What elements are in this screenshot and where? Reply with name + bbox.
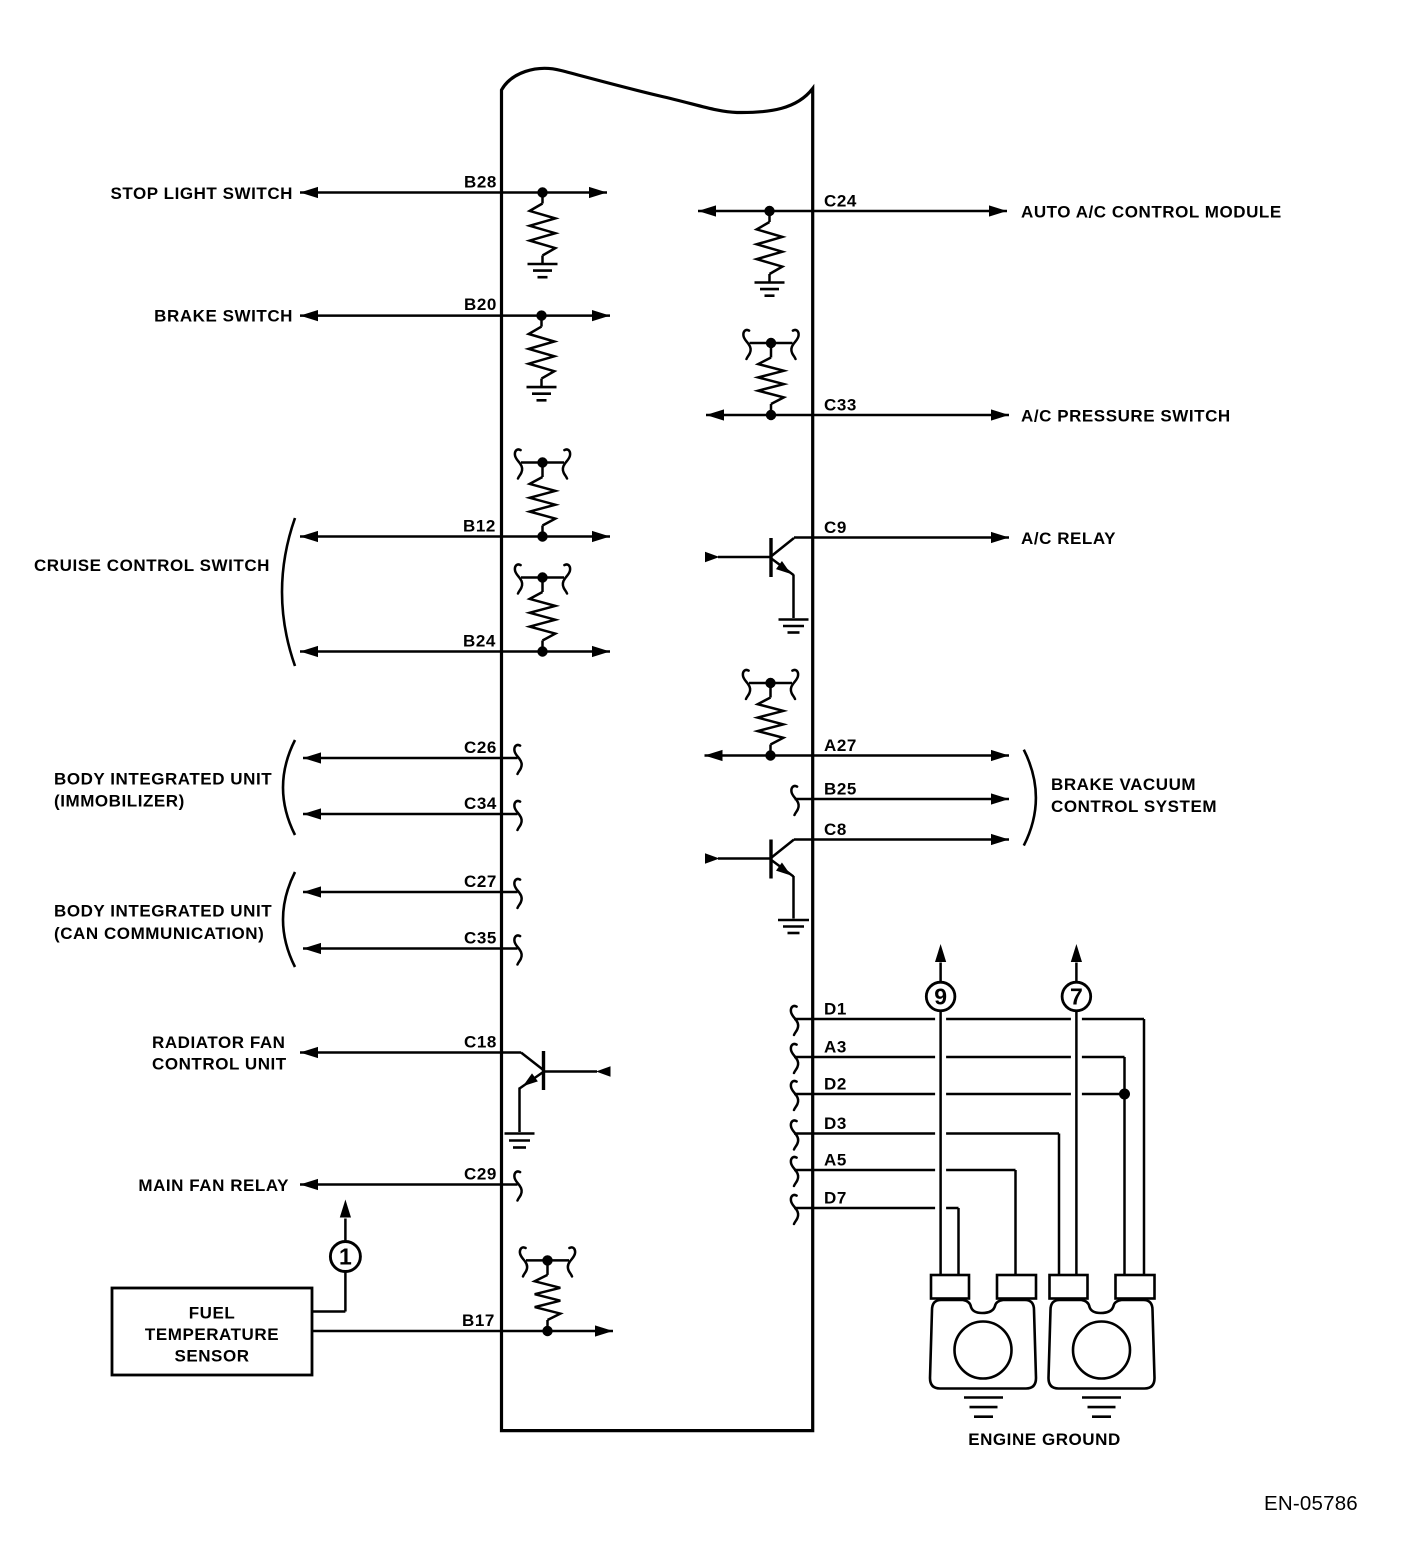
resistor at B20 to ground: [527, 310, 557, 400]
wire A3 to engine ground: [794, 1057, 1125, 1276]
wire circled 7 to engine ground: [1075, 1012, 1078, 1276]
svg-text:C27: C27: [464, 872, 497, 891]
svg-text:CONTROL SYSTEM: CONTROL SYSTEM: [1051, 797, 1217, 816]
svg-text:SENSOR: SENSOR: [174, 1347, 249, 1366]
pin label D3: [824, 1114, 847, 1133]
svg-text:C26: C26: [464, 738, 497, 757]
svg-text:B25: B25: [824, 780, 857, 799]
wire D1 to engine ground: [794, 1019, 1144, 1276]
svg-text:CRUISE CONTROL SWITCH: CRUISE CONTROL SWITCH: [34, 556, 270, 575]
label CRUISE CONTROL SWITCH: [34, 556, 270, 575]
brace brake vacuum control system: [1024, 750, 1036, 846]
svg-text:7: 7: [1070, 984, 1083, 1010]
pin label C24: [824, 192, 857, 211]
transistor Q3 base lead with arrow: [544, 1066, 611, 1077]
svg-text:9: 9: [934, 984, 947, 1010]
label BODY INTEGRATED UNIT (IMMOBILIZER): [54, 770, 272, 811]
svg-text:MAIN FAN RELAY: MAIN FAN RELAY: [138, 1176, 289, 1195]
pin label C8: [824, 820, 847, 839]
svg-text:B17: B17: [462, 1311, 495, 1330]
circled number 9: [926, 982, 955, 1011]
wire B25 to brake vacuum control system: [795, 793, 1010, 804]
transistor Q3 base bar: [542, 1051, 545, 1090]
svg-text:FUEL: FUEL: [189, 1304, 236, 1323]
wire from sensor to circled 1: [312, 1272, 345, 1312]
svg-text:C24: C24: [824, 192, 857, 211]
svg-text:D2: D2: [824, 1075, 847, 1094]
svg-text:BRAKE SWITCH: BRAKE SWITCH: [154, 307, 293, 326]
arrow above circled 1: [340, 1200, 351, 1242]
label A/C RELAY: [1021, 529, 1116, 548]
wire D7 to engine ground: [794, 1208, 959, 1276]
label STOP LIGHT SWITCH: [110, 184, 293, 203]
svg-text:RADIATOR FAN: RADIATOR FAN: [152, 1033, 285, 1052]
transistor Q2 base bar: [769, 840, 772, 879]
svg-text:A/C RELAY: A/C RELAY: [1021, 529, 1116, 548]
label A/C PRESSURE SWITCH: [1021, 407, 1231, 426]
label FUEL TEMPERATURE SENSOR: [145, 1304, 279, 1366]
wire C9 to A/C relay: [794, 532, 1009, 543]
resistor at B28 to ground: [528, 187, 558, 277]
wire B12 to cruise control switch: [300, 531, 610, 542]
pin label D7: [824, 1189, 847, 1208]
svg-text:A27: A27: [824, 736, 857, 755]
wire B28 to stop light switch: [300, 187, 607, 198]
pin label C29: [464, 1165, 497, 1184]
ground symbol under right bolt: [1082, 1398, 1121, 1417]
svg-text:BODY INTEGRATED UNIT: BODY INTEGRATED UNIT: [54, 770, 272, 789]
svg-text:A3: A3: [824, 1038, 847, 1057]
svg-text:AUTO A/C CONTROL MODULE: AUTO A/C CONTROL MODULE: [1021, 203, 1282, 222]
svg-text:EN-05786: EN-05786: [1264, 1492, 1358, 1515]
pull-up resistor at B24: [515, 564, 570, 656]
pin label D1: [824, 1000, 847, 1019]
wire C24 to auto A/C control module: [698, 205, 1007, 216]
label RADIATOR FAN CONTROL UNIT: [152, 1033, 287, 1074]
transistor Q2 collector diagonal: [772, 840, 795, 858]
wire C8 to brake vacuum control system: [794, 834, 1009, 845]
break hook D2: [791, 1081, 798, 1110]
engine ground bolt (left): [930, 1275, 1036, 1389]
pin label B25: [824, 780, 857, 799]
wire A27 to brake vacuum control system: [705, 750, 1010, 761]
label BODY INTEGRATED UNIT (CAN COMMUNICATION): [54, 902, 272, 944]
label MAIN FAN RELAY: [138, 1176, 289, 1195]
pin label B12: [463, 517, 496, 536]
svg-text:(IMMOBILIZER): (IMMOBILIZER): [54, 792, 185, 811]
transistor Q1 collector diagonal: [772, 538, 795, 556]
ECM box outline (torn top edge): [502, 68, 813, 1430]
pin label B17: [462, 1311, 495, 1330]
svg-text:ENGINE GROUND: ENGINE GROUND: [968, 1430, 1121, 1449]
wire D3 to engine ground: [794, 1134, 1059, 1277]
pin label C27: [464, 872, 497, 891]
svg-text:B24: B24: [463, 632, 496, 651]
break hook D3: [791, 1120, 798, 1149]
wire B24 to cruise control switch: [300, 646, 610, 657]
svg-text:C29: C29: [464, 1165, 497, 1184]
label ENGINE GROUND: [968, 1430, 1121, 1449]
break hook A5: [791, 1157, 798, 1186]
pin label D2: [824, 1075, 847, 1094]
transistor Q1 base lead with arrow: [705, 552, 771, 563]
pin label B24: [463, 632, 496, 651]
wire C26 to body integrated unit: [303, 752, 518, 763]
wire C34 to body integrated unit: [303, 808, 518, 819]
transistor Q3 emitter: [520, 1073, 543, 1133]
svg-text:B12: B12: [463, 517, 496, 536]
svg-text:BRAKE VACUUM: BRAKE VACUUM: [1051, 775, 1196, 794]
svg-text:BODY INTEGRATED UNIT: BODY INTEGRATED UNIT: [54, 902, 272, 921]
svg-text:A/C PRESSURE SWITCH: A/C PRESSURE SWITCH: [1021, 407, 1231, 426]
label BRAKE SWITCH: [154, 307, 293, 326]
pull-up resistor at C33: [743, 330, 798, 420]
pin label B28: [464, 173, 497, 192]
ground at Q3 emitter: [505, 1134, 535, 1148]
pin label B20: [464, 295, 497, 314]
break hook B25: [791, 786, 798, 815]
pull-up resistor at A27: [743, 670, 798, 761]
svg-text:A5: A5: [824, 1151, 847, 1170]
pin label C18: [464, 1033, 497, 1052]
transistor Q1 base bar: [769, 538, 772, 577]
pin label C26: [464, 738, 497, 757]
ground at Q1 emitter: [779, 620, 809, 633]
transistor Q3 at C18 (collector diagonal): [521, 1053, 544, 1071]
junction dot A3/D2: [1119, 1089, 1130, 1100]
svg-text:CONTROL UNIT: CONTROL UNIT: [152, 1055, 287, 1074]
transistor Q2 emitter: [772, 861, 794, 919]
transistor Q1 emitter: [772, 559, 794, 618]
pin label C34: [464, 794, 497, 813]
pin label C9: [824, 518, 847, 537]
break hook C26: [514, 745, 521, 774]
wire C33 to A/C pressure switch: [706, 409, 1009, 420]
pin label C33: [824, 396, 857, 415]
break hook D7: [791, 1195, 798, 1224]
circled number 1: [330, 1242, 360, 1272]
svg-text:STOP LIGHT SWITCH: STOP LIGHT SWITCH: [110, 184, 293, 203]
break hook D1: [791, 1006, 798, 1035]
svg-text:(CAN COMMUNICATION): (CAN COMMUNICATION): [54, 924, 264, 943]
wire B17 from fuel temperature sensor: [312, 1325, 613, 1336]
brace cruise control switch: [282, 518, 295, 666]
resistor at C24 to ground: [755, 206, 785, 296]
svg-text:C34: C34: [464, 794, 497, 813]
brace body integrated unit (CAN): [283, 872, 295, 967]
brace body integrated unit (immobilizer): [283, 740, 295, 835]
svg-text:C9: C9: [824, 518, 847, 537]
svg-text:C8: C8: [824, 820, 847, 839]
pull-up resistor at B12: [515, 449, 570, 541]
wire D2 joining A3: [794, 1093, 1125, 1096]
transistor Q2 base lead with arrow: [705, 853, 771, 864]
svg-text:B20: B20: [464, 295, 497, 314]
wire C18 to radiator fan control unit: [300, 1047, 521, 1058]
svg-text:D1: D1: [824, 1000, 847, 1019]
pin label A3: [824, 1038, 847, 1057]
break hook C34: [514, 801, 521, 830]
svg-text:1: 1: [339, 1244, 352, 1270]
svg-text:C35: C35: [464, 929, 497, 948]
break hook A3: [791, 1044, 798, 1073]
svg-text:C33: C33: [824, 396, 857, 415]
wire C27 to body integrated unit CAN: [303, 886, 518, 897]
break hook C29: [514, 1171, 521, 1200]
wire B20 to brake switch: [300, 310, 610, 321]
wire circled 9 to engine ground: [939, 1012, 942, 1276]
engine ground bolt (right): [1049, 1275, 1155, 1389]
svg-text:C18: C18: [464, 1033, 497, 1052]
label AUTO A/C CONTROL MODULE: [1021, 203, 1282, 222]
ground symbol under left bolt: [964, 1398, 1003, 1417]
svg-text:D3: D3: [824, 1114, 847, 1133]
pin label A5: [824, 1151, 847, 1170]
wire C29 to main fan relay: [300, 1179, 518, 1190]
ground at Q2 emitter: [778, 920, 809, 933]
break hook C27: [514, 879, 521, 908]
pin label C35: [464, 929, 497, 948]
svg-text:D7: D7: [824, 1189, 847, 1208]
figure number EN-05786: [1264, 1492, 1358, 1515]
svg-text:TEMPERATURE: TEMPERATURE: [145, 1325, 279, 1344]
wire and arrow above circled 7: [1071, 944, 1082, 981]
fuel temperature sensor box: [112, 1288, 312, 1375]
label BRAKE VACUUM CONTROL SYSTEM: [1051, 775, 1217, 816]
break hook C35: [514, 935, 521, 964]
pull-up resistor at B17: [520, 1247, 575, 1336]
wire A5 to engine ground: [794, 1170, 1016, 1276]
wire and arrow above circled 9: [935, 944, 946, 981]
pin label A27: [824, 736, 857, 755]
circled number 7: [1062, 982, 1091, 1011]
svg-text:B28: B28: [464, 173, 497, 192]
wire C35 to body integrated unit CAN: [303, 943, 518, 954]
